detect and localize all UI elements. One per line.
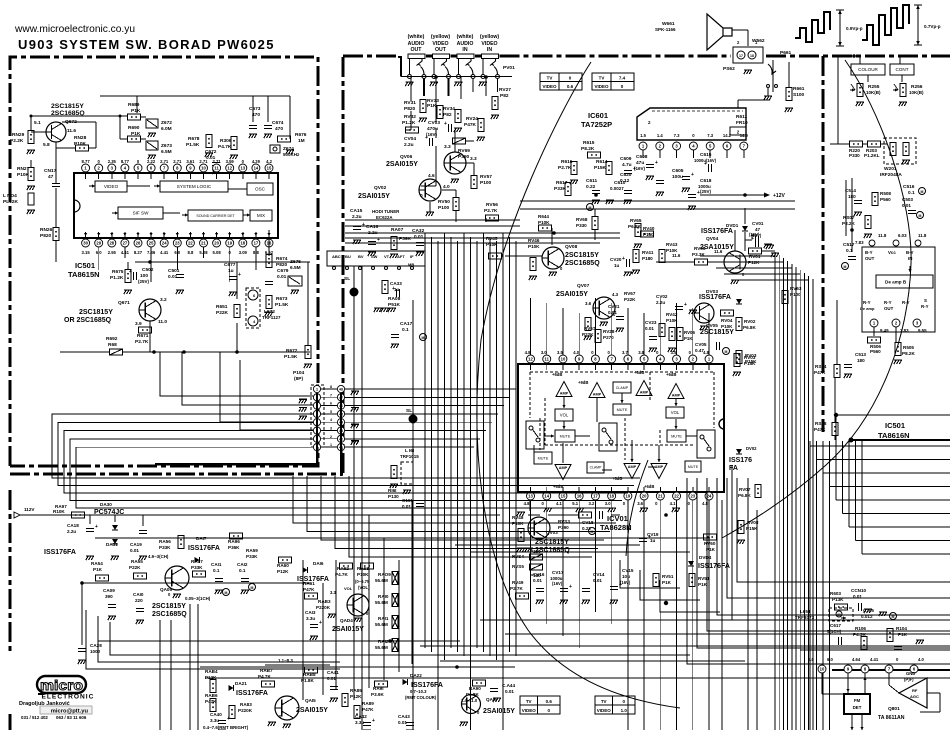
svg-text:3: 3 [330,427,332,431]
svg-text:4.1: 4.1 [670,501,676,506]
svg-text:0.1: 0.1 [239,568,246,573]
svg-text:8: 8 [330,385,332,389]
svg-text:CV05: CV05 [695,342,707,347]
svg-text:AMP: AMP [672,394,681,398]
svg-text:2SAI015Y: 2SAI015Y [296,707,328,714]
svg-text:C605: C605 [672,168,684,174]
svg-text:HODI TUNER: HODI TUNER [372,209,400,214]
svg-text:2SC1685Q: 2SC1685Q [565,260,600,267]
svg-text:VIDEO: VIDEO [104,184,119,189]
svg-text:11.6: 11.6 [672,253,681,258]
svg-text:P8.2K: P8.2K [842,221,855,226]
svg-text:4.0: 4.0 [443,184,450,190]
svg-text:P10K: P10K [538,220,550,225]
svg-text:VIDEO: VIDEO [542,84,557,89]
svg-text:24: 24 [162,241,167,246]
svg-text:2.2u: 2.2u [352,214,362,220]
svg-text:1u: 1u [614,263,620,268]
svg-text:+: + [95,524,98,530]
svg-text:13: 13 [528,494,533,499]
svg-text:1.5: 1.5 [640,133,646,138]
svg-text:R-Y: R-Y [921,304,929,309]
svg-text:VOL: VOL [671,410,680,415]
svg-text:23: 23 [690,494,695,499]
svg-text:P104: P104 [293,370,305,376]
svg-text:+: + [655,160,658,166]
svg-text:AMP: AMP [640,391,649,395]
svg-text:P12K: P12K [748,260,760,265]
svg-text:6: 6 [330,402,332,406]
svg-text:R675: R675 [112,269,124,275]
svg-text:R611: R611 [736,114,748,120]
svg-text:2SC1815Y: 2SC1815Y [51,103,84,110]
svg-text:4.41: 4.41 [160,250,169,255]
svg-text:P10K: P10K [512,521,524,526]
svg-text:P2.7K: P2.7K [135,339,149,345]
svg-text:R651: R651 [216,304,228,310]
svg-text:B-Y: B-Y [906,250,914,255]
svg-text:20: 20 [642,494,647,499]
svg-text:P390: P390 [558,525,569,530]
svg-text:5.8: 5.8 [43,142,50,148]
svg-text:DV02: DV02 [746,446,757,451]
svg-text:+: + [425,135,428,141]
svg-text:6.03: 6.03 [898,233,907,238]
svg-text:P1K: P1K [898,632,908,637]
svg-text:P330: P330 [576,223,587,228]
svg-text:0.01: 0.01 [608,310,617,315]
svg-text:3.2: 3.2 [160,297,167,303]
svg-text:CLAMP: CLAMP [590,466,602,470]
svg-text:100u: 100u [672,174,683,180]
svg-text:9.49: 9.49 [880,328,889,333]
svg-text:P10K: P10K [357,572,369,577]
svg-text:SL: SL [406,408,412,414]
svg-text:ISS176FA: ISS176FA [236,690,268,697]
svg-text:QAI5: QAI5 [305,698,316,703]
svg-text:3.61: 3.61 [186,159,195,164]
svg-text:CV16: CV16 [533,572,545,577]
svg-text:OUT: OUT [435,47,447,53]
svg-text:+: + [684,302,687,308]
svg-text:11.8: 11.8 [918,233,927,238]
svg-text:C516: C516 [903,184,915,190]
svg-text:2.2u: 2.2u [404,142,414,148]
svg-text:10u: 10u [622,574,630,579]
svg-text:+6dB: +6dB [612,476,622,481]
svg-text:4.7u: 4.7u [622,162,632,168]
svg-text:SPK-1166: SPK-1166 [655,27,676,32]
svg-text:15: 15 [267,166,272,171]
svg-text:QV06: QV06 [400,154,413,160]
svg-text:GND: GND [906,671,915,676]
svg-text:FM: FM [854,698,861,703]
svg-text:IN: IN [908,256,912,261]
svg-text:R603: R603 [830,591,841,596]
svg-text:+: + [444,121,447,127]
svg-text:P820: P820 [276,262,288,268]
svg-text:2SC1815Y: 2SC1815Y [152,603,186,610]
svg-text:C105: C105 [863,608,874,613]
svg-text:4.3: 4.3 [612,292,619,297]
svg-text:11: 11 [545,357,550,362]
svg-text:RN28: RN28 [74,135,87,141]
svg-text:4: 4 [330,418,332,422]
svg-text:COLOUR: COLOUR [858,67,878,72]
svg-text:CV04: CV04 [404,136,416,142]
svg-text:6.5M: 6.5M [290,265,301,271]
svg-text:R-Y: R-Y [884,300,892,305]
svg-text:PS62: PS62 [723,66,735,72]
svg-text:P47K: P47K [814,427,826,432]
svg-text:TV: TV [526,699,532,704]
svg-text:220: 220 [135,598,143,603]
svg-text:60: 60 [837,613,841,617]
svg-text:M: M [844,265,847,269]
svg-text:RV42: RV42 [666,312,678,317]
svg-text:55.6M: 55.6M [375,645,388,650]
svg-text:0.012: 0.012 [861,614,873,619]
svg-text:DAI6: DAI6 [313,561,324,566]
svg-text:RV32: RV32 [404,114,416,120]
svg-text:2SAI015Y: 2SAI015Y [386,161,418,168]
svg-text:2.71: 2.71 [160,159,169,164]
svg-text:OUT: OUT [411,47,423,53]
svg-text:P15K: P15K [594,165,607,171]
svg-text:P12K: P12K [350,694,362,699]
svg-text:RA89: RA89 [362,701,374,706]
svg-text:RV56: RV56 [486,202,498,208]
svg-text:7.83: 7.83 [855,240,864,245]
svg-text:RV31: RV31 [404,100,416,106]
svg-text:10K(B): 10K(B) [909,90,924,95]
svg-text:RV51: RV51 [662,574,674,579]
svg-text:TRF3073: TRF3073 [795,615,815,620]
svg-text:C673: C673 [249,106,261,112]
svg-text:P36K: P36K [228,545,240,550]
svg-text:P6.8K: P6.8K [738,493,751,498]
svg-text:ISS176FA: ISS176FA [699,294,731,301]
svg-text:C672: C672 [205,149,217,155]
svg-text:0.7~10.3: 0.7~10.3 [410,689,427,694]
svg-text:17: 17 [593,494,598,499]
svg-text:P1K: P1K [698,582,708,587]
svg-text:RV43: RV43 [666,242,678,247]
svg-text:R644: R644 [538,214,549,219]
svg-text:5: 5 [330,410,332,414]
svg-text:R678: R678 [188,136,200,142]
svg-text:21: 21 [658,494,663,499]
svg-text:2: 2 [330,435,332,439]
svg-text:RV02: RV02 [744,319,756,324]
svg-text:P47K: P47K [205,699,217,704]
svg-text:4.8: 4.8 [702,501,708,506]
svg-text:CAI3: CAI3 [305,610,316,615]
svg-text:CV18: CV18 [582,520,594,525]
svg-text:Z672: Z672 [161,120,172,126]
svg-text:R674: R674 [276,256,288,262]
svg-text:5(1CH): 5(1CH) [827,629,842,634]
svg-text:U903 SYSTEM SW. BORAD PW6025: U903 SYSTEM SW. BORAD PW6025 [18,37,275,52]
svg-text:IC501: IC501 [75,261,95,270]
svg-text:M: M [919,214,922,218]
svg-text:25: 25 [149,241,154,246]
svg-text:2SC1815Y: 2SC1815Y [79,309,113,316]
svg-text:+: + [392,286,395,292]
svg-text:CLAMP: CLAMP [616,386,629,390]
svg-text:P1.2KL: P1.2KL [864,153,880,158]
svg-text:P47K: P47K [362,707,374,712]
svg-text:0.6: 0.6 [546,699,553,704]
svg-text:P6.8K: P6.8K [743,325,756,330]
svg-text:RAI0: RAI0 [378,594,389,599]
svg-text:M: M [422,336,425,340]
svg-text:RV24: RV24 [466,116,478,122]
svg-text:S100: S100 [793,92,805,98]
svg-text:R689: R689 [128,102,140,108]
svg-text:0.01: 0.01 [533,578,542,583]
svg-text:CA41: CA41 [327,670,339,675]
svg-text:IN: IN [487,47,492,53]
svg-text:RV28: RV28 [603,329,615,334]
svg-text:R690: R690 [128,125,140,131]
svg-text:M: M [725,350,728,354]
svg-text:RV49: RV49 [512,580,524,585]
svg-text:+6dB: +6dB [666,372,676,377]
svg-text:SW: SW [371,254,378,259]
svg-text:1: 1 [330,443,332,447]
svg-text:6.0: 6.0 [808,657,814,662]
svg-text:14: 14 [254,166,259,171]
svg-text:(25V): (25V) [138,279,150,284]
svg-text:IF: IF [410,254,414,259]
svg-text:AMP: AMP [628,465,637,469]
svg-text:+: + [622,256,625,262]
svg-text:30: 30 [83,241,88,246]
svg-text:R306: R306 [220,138,232,144]
svg-text:SIF SW: SIF SW [133,211,149,216]
svg-text:(yellow): (yellow) [431,34,451,40]
svg-text:2.55: 2.55 [108,250,117,255]
svg-text:PV01: PV01 [503,65,515,71]
svg-text:VT: VT [384,254,390,259]
svg-text:0.01: 0.01 [505,689,514,694]
svg-text:Q801: Q801 [888,706,900,712]
svg-text:CA28: CA28 [90,643,102,648]
svg-text:2.22: 2.22 [147,159,156,164]
svg-text:QA05: QA05 [160,587,172,592]
svg-text:VIDEO: VIDEO [597,708,612,713]
svg-text:TRF1015: TRF1015 [400,454,419,459]
svg-text:9.55: 9.55 [918,328,927,333]
svg-text:R505: R505 [903,345,914,350]
svg-text:CA43: CA43 [398,714,410,719]
svg-text:+: + [697,190,700,196]
svg-text:+: + [704,161,707,167]
svg-text:3.3u: 3.3u [210,718,219,723]
svg-text:RA61: RA61 [303,581,315,586]
svg-text:RA60: RA60 [277,563,289,568]
svg-text:26: 26 [136,241,141,246]
svg-text:P1.2K: P1.2K [402,120,416,126]
svg-text:CA17: CA17 [400,321,413,327]
svg-text:DA22: DA22 [410,673,422,678]
svg-text:ISS176FA: ISS176FA [698,563,730,570]
svg-text:+6dB: +6dB [634,370,644,375]
svg-text:0.01: 0.01 [853,594,862,599]
svg-text:CV14: CV14 [593,572,605,577]
svg-text:19: 19 [227,241,232,246]
svg-text:QAI6: QAI6 [486,697,497,702]
svg-text:3.6: 3.6 [585,301,592,306]
svg-text:11.0: 11.0 [158,319,167,325]
svg-text:0.05~3(1CH): 0.05~3(1CH) [185,596,211,601]
svg-text:Q671: Q671 [118,300,130,306]
svg-text:P8.2K: P8.2K [902,351,915,356]
svg-text:3.3: 3.3 [330,590,336,595]
svg-text:R104: R104 [896,626,907,631]
svg-text:P22K: P22K [624,297,636,302]
svg-text:M: M [892,615,895,619]
svg-text:P47K: P47K [303,587,315,592]
svg-text:OUT: OUT [865,256,875,261]
svg-text:P130: P130 [388,494,399,499]
svg-text:ISS176FA: ISS176FA [411,682,443,689]
svg-text:RF: RF [912,688,918,693]
svg-text:R615: R615 [583,140,595,146]
svg-text:OSC: OSC [255,187,266,192]
svg-text:P1K: P1K [684,336,693,341]
svg-text:22: 22 [188,241,193,246]
svg-text:48: 48 [339,388,343,392]
svg-text:ELECTRONIC: ELECTRONIC [42,694,95,701]
svg-text:2.71: 2.71 [199,159,208,164]
svg-text:MUTE: MUTE [671,434,682,438]
svg-text:P22K: P22K [129,565,141,570]
svg-text:6.5M: 6.5M [161,149,172,155]
svg-text:RV01: RV01 [749,254,761,259]
svg-text:CA18: CA18 [67,523,79,528]
svg-text:P47K: P47K [464,122,477,128]
svg-text:2SC1815Y: 2SC1815Y [700,329,734,336]
svg-text:CV20: CV20 [610,257,622,262]
svg-text:CAI1: CAI1 [211,562,222,567]
svg-text:RA07: RA07 [391,227,404,233]
svg-text:55.6M: 55.6M [375,578,388,583]
svg-text:P33K: P33K [246,554,258,559]
svg-text:R676: R676 [295,132,307,138]
svg-text:MUTE: MUTE [538,456,549,460]
svg-text:CV17: CV17 [552,570,564,575]
svg-text:CN17: CN17 [44,168,57,174]
svg-text:7.3: 7.3 [674,133,680,138]
svg-text:5.1: 5.1 [34,120,41,126]
svg-text:+: + [238,272,241,278]
svg-text:19: 19 [626,494,631,499]
svg-text:0.1: 0.1 [908,190,915,196]
svg-text:W562: W562 [752,38,765,44]
svg-text:0.01: 0.01 [593,578,602,583]
svg-text:1M: 1M [298,138,305,144]
svg-text:RAI2: RAI2 [378,639,389,644]
svg-text:29: 29 [96,241,101,246]
svg-text:0.01: 0.01 [645,326,654,331]
svg-text:RV68: RV68 [576,217,588,222]
svg-text:RV34: RV34 [443,106,455,112]
svg-text:+6dB: +6dB [553,484,563,489]
svg-text:RV04: RV04 [721,318,733,323]
svg-text:0.0027: 0.0027 [610,186,624,191]
svg-text:RA90: RA90 [469,686,481,691]
svg-text:20: 20 [214,241,219,246]
svg-text:17: 17 [254,241,259,246]
svg-text:3.9: 3.9 [135,321,142,327]
svg-text:R661: R661 [793,86,805,92]
svg-text:3.59: 3.59 [226,159,235,164]
svg-text:12: 12 [227,166,232,171]
svg-text:2SAI015Y: 2SAI015Y [332,626,364,633]
svg-text:031 / 512 402: 031 / 512 402 [21,715,48,720]
svg-text:P51K: P51K [388,302,401,308]
svg-text:(VOL): (VOL) [358,585,370,590]
svg-text:VIDEO: VIDEO [522,708,537,713]
svg-text:2SAI015Y: 2SAI015Y [483,708,515,715]
svg-text:PC574JC: PC574JC [94,509,124,516]
svg-text:C620: C620 [620,172,632,178]
svg-text:M: M [921,190,924,194]
svg-text:L ND4: L ND4 [3,193,17,199]
svg-text:Vcc: Vcc [888,250,896,255]
svg-text:P4.7K: P4.7K [218,144,232,150]
svg-text:11.8: 11.8 [878,233,887,238]
svg-text:C.A44: C.A44 [502,683,515,688]
svg-text:28: 28 [109,241,114,246]
svg-text:R106: R106 [855,626,866,631]
svg-text:RV60: RV60 [704,541,716,546]
svg-text:P1K: P1K [131,108,141,114]
svg-text:RV06: RV06 [684,330,695,335]
svg-text:(8P): (8P) [294,376,303,382]
svg-text:IN: IN [462,47,467,53]
svg-text:+: + [751,233,754,239]
svg-text:DVD4: DVD4 [699,555,712,560]
svg-text:16: 16 [577,494,582,499]
svg-text:7.3: 7.3 [707,133,713,138]
svg-text:RV05: RV05 [694,246,706,251]
svg-text:C517: C517 [843,242,855,248]
svg-text:AMP: AMP [560,392,569,396]
svg-text:23: 23 [175,241,180,246]
svg-text:+6dB: +6dB [552,372,562,377]
svg-text:RAB3: RAB3 [318,599,331,604]
svg-text:12: 12 [528,357,533,362]
svg-text:3.09: 3.09 [239,250,248,255]
svg-text:P560: P560 [870,349,881,354]
svg-text:11.6: 11.6 [714,249,723,254]
svg-text:7.4: 7.4 [619,76,626,81]
svg-text:3.3: 3.3 [444,144,451,150]
svg-text:+: + [619,582,622,588]
svg-text:R-Y: R-Y [902,300,910,305]
svg-text:R672: R672 [286,348,298,354]
svg-text:micro@ptt.yu: micro@ptt.yu [51,709,89,715]
svg-text:P2.7K: P2.7K [510,586,523,591]
svg-text:P8.2K: P8.2K [581,146,595,152]
svg-text:4.41: 4.41 [870,657,879,662]
svg-text:2.2u: 2.2u [67,529,76,534]
svg-text:1.4: 1.4 [657,133,663,138]
svg-text:P220K: P220K [316,605,331,610]
